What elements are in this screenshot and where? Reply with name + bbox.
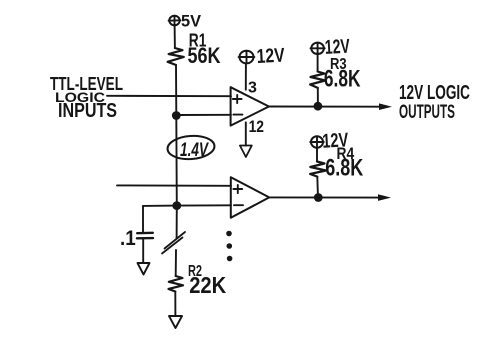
node label 1.4V ellipse [167,134,215,160]
wire 12V to R3 [317,54,319,72]
svg-text:12V LOGIC: 12V LOGIC [399,82,470,104]
svg-text:1.4V: 1.4V [180,140,209,161]
wire from 5V to R1 [174,25,176,48]
wire R3 to output node [317,88,319,106]
svg-text:INPUTS: INPUTS [58,100,117,122]
svg-text:12: 12 [249,117,264,136]
op-amp U1 [231,87,269,125]
svg-text:56K: 56K [188,43,221,68]
text 12V LOGIC OUTPUTS [399,82,470,123]
power symbol 12V for U1 pin 3 [239,51,255,64]
svg-text:OUTPUTS: OUTPUTS [399,102,455,123]
pin 3 wire [245,64,247,90]
capacitor C1 plates [137,232,153,235]
wire R4 to output node [316,177,319,198]
wire input 2 to op-amp U2 + input [117,184,231,186]
wire input 1 to op-amp U1 + input [107,95,231,97]
junction dot output 1 [314,102,323,111]
svg-text:12V: 12V [256,45,286,68]
resistor R1 [168,48,184,65]
svg-text:.1: .1 [120,227,136,250]
node B junction dot [172,201,181,210]
svg-text:6.8K: 6.8K [325,154,363,181]
arrowhead output 2 [378,194,391,201]
wire break symbol [162,232,185,254]
ground below R2 [169,316,182,328]
svg-text:5V: 5V [181,11,202,30]
svg-text:6.8K: 6.8K [324,66,361,93]
svg-text:22K: 22K [189,272,226,298]
ground below U1 [240,146,252,158]
wire R1 down through node A to node B [175,65,178,239]
wire U1 output [269,106,381,108]
capacitor C1 bottom stub [142,238,144,263]
wire R2 to ground [174,292,176,317]
ellipsis more channels [226,231,232,262]
resistor R4 [310,162,326,177]
arrowhead output 1 [379,103,392,110]
wire node A to op-amp U1 - input [176,114,231,116]
junction dot output 2 [314,193,323,202]
resistor R2 [169,276,184,292]
pin 12 wire [245,122,247,145]
wire break lower segment to R2 [175,250,177,276]
svg-text:3: 3 [248,79,257,96]
wire 12V to R4 [316,148,318,162]
power symbol 5V [169,16,181,26]
op-amp U2 [231,177,269,218]
wire U2 output [269,196,381,198]
node A junction dot [172,111,181,120]
ground below C1 [138,263,150,275]
power symbol 12V for R4 [310,136,324,147]
capacitor C1 top stub [142,206,144,233]
text TTL-LEVEL LOGIC INPUTS [50,74,123,122]
resistor R3 [310,72,325,88]
wire cap to node B to U2 - input [143,204,231,207]
power symbol 12V for R3 [311,43,325,54]
